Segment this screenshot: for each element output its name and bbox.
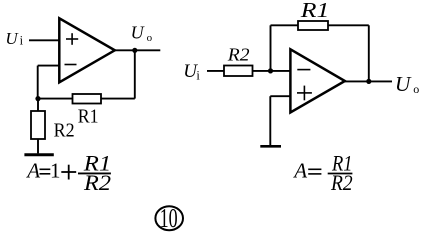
svg-text:10: 10 [160,203,178,233]
svg-text:R1: R1 [78,106,99,128]
svg-text:i: i [20,33,24,47]
svg-text:R2: R2 [227,45,250,65]
svg-text:U: U [395,72,412,96]
svg-text:R2: R2 [54,120,75,142]
svg-text:1: 1 [50,158,61,182]
svg-text:o: o [413,82,419,96]
svg-text:U: U [5,29,19,48]
svg-text:i: i [196,69,200,83]
svg-text:U: U [131,23,145,43]
svg-text:A: A [25,158,40,182]
svg-text:A: A [292,158,307,182]
svg-text:R1: R1 [300,0,330,22]
svg-text:o: o [147,32,153,44]
